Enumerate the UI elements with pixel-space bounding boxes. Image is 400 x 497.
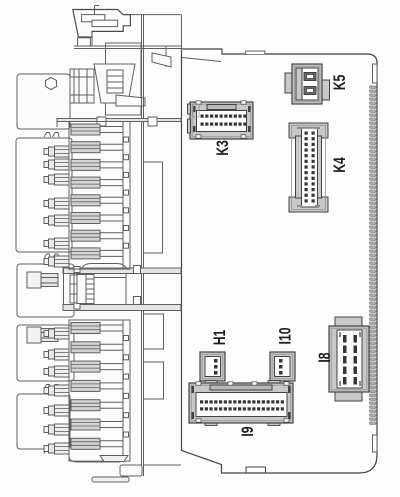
- mid band 1 latch b: [134, 266, 141, 274]
- plate 3: [17, 264, 74, 317]
- top tab inner vertical: [91, 31, 93, 46]
- inner vertical rail pair: [141, 14, 143, 476]
- top assembly crown: [94, 64, 135, 103]
- I10 cavity: [275, 357, 291, 377]
- plate 4: [17, 325, 74, 381]
- H1 cavity: [205, 357, 221, 377]
- K3 cavity: [197, 111, 247, 132]
- lower bank pins: [44, 331, 49, 337]
- connector K3: [188, 101, 254, 139]
- K5 cavity: [296, 68, 318, 100]
- top mounting tab outline: [123, 14, 181, 16]
- K4 cavity: [302, 128, 318, 207]
- top tab vertical tick: [94, 6, 96, 16]
- svg-text:I10: I10: [277, 327, 295, 344]
- K3 edge notches: [196, 101, 246, 138]
- K5 left tab: [285, 73, 293, 93]
- K4 pin number marks: [297, 127, 320, 207]
- connector K5: [285, 64, 330, 104]
- large terminal B: [27, 327, 41, 343]
- I9 corner marks: [192, 386, 291, 419]
- mid band 2 latch b: [134, 297, 141, 305]
- body left edge upper extension: [181, 15, 183, 52]
- svg-text:K4: K4: [331, 157, 349, 173]
- svg-text:H1: H1: [211, 330, 229, 346]
- plate 5: [17, 394, 70, 449]
- inner rail box 3: [144, 362, 164, 399]
- I8 pin slots: [343, 335, 357, 385]
- mid band 1 latch a: [74, 267, 80, 273]
- K4 top flange: [289, 123, 328, 138]
- connector K5 shell: [292, 64, 322, 104]
- connector I10 shell: [270, 352, 295, 381]
- tiny part number mark: [193, 104, 199, 117]
- mid right shelf: [94, 277, 126, 279]
- I9 edge notches: [196, 382, 289, 422]
- svg-text:K3: K3: [214, 140, 232, 156]
- upper bank shell: [69, 122, 130, 270]
- K4 body: [296, 136, 322, 198]
- mid ladder cage: [77, 275, 94, 304]
- bottom step rect: [120, 465, 142, 476]
- connector K4: [289, 123, 328, 212]
- bracket plate with hex hole: [17, 74, 70, 129]
- K3 corner marks: [193, 106, 251, 132]
- right edge slot bottom: [373, 435, 378, 452]
- neck rails: [74, 45, 181, 47]
- top assembly left stack: [70, 69, 94, 103]
- connector K3 shell: [190, 102, 253, 139]
- top tab slot 2: [92, 20, 118, 26]
- top-left inner diagonal: [182, 58, 221, 62]
- lower bank ribs: [71, 323, 100, 334]
- upper bank pins: [44, 149, 49, 155]
- neck wedge: [152, 53, 171, 67]
- mid band 2: [63, 305, 181, 311]
- K5 divider: [296, 68, 302, 100]
- mid band left end: [63, 268, 65, 311]
- svg-text:K5: K5: [331, 75, 349, 91]
- clip marks: [44, 133, 59, 138]
- K5 right tab: [321, 80, 330, 100]
- connector H1: [200, 352, 225, 381]
- K4 bottom flange: [289, 197, 328, 212]
- upper band left end: [56, 119, 58, 128]
- svg-text:I8: I8: [316, 352, 334, 362]
- upper bank ribs: [71, 124, 100, 135]
- top tab body: [73, 10, 131, 38]
- band latch square a: [97, 117, 106, 126]
- I9 top tabs: [205, 381, 217, 384]
- I9 cavity: [196, 393, 287, 417]
- module main body outline: [182, 49, 378, 473]
- connector I10: [270, 352, 295, 381]
- mid band 2 latch a: [74, 303, 80, 309]
- plate 2: [16, 138, 72, 252]
- I8 bottom tab: [335, 391, 362, 401]
- I8 pin number marks: [339, 332, 361, 386]
- mid dome: [82, 264, 126, 269]
- top assembly cage rungs: [107, 75, 123, 77]
- top piece foot: [78, 38, 91, 46]
- connector I8 shell: [329, 326, 369, 392]
- K4 pin grid: [305, 132, 315, 203]
- inner rail box 2: [144, 314, 164, 349]
- bottom link line: [144, 464, 182, 466]
- I8 cavity: [337, 330, 362, 388]
- inner rail box 1: [144, 162, 163, 253]
- I9 pin rows: [200, 400, 284, 410]
- top edge bump: [246, 51, 265, 54]
- connector H1 shell: [200, 352, 225, 381]
- neck vertical: [165, 46, 167, 67]
- I8 top tab: [335, 317, 362, 327]
- H1 pins: [214, 359, 218, 375]
- top tab slot 1: [82, 15, 105, 22]
- lower shell bottom taper: [100, 456, 128, 462]
- connector I8: [329, 317, 369, 401]
- mid left stack: [70, 275, 77, 303]
- svg-text:I9: I9: [239, 426, 257, 436]
- lower bank shell: [69, 320, 130, 461]
- bottom foot bar: [92, 477, 129, 482]
- mid band 1: [63, 268, 181, 274]
- connector I9: [189, 381, 293, 426]
- upper bank top band: [57, 119, 181, 122]
- I9 bottom tabs: [205, 423, 217, 426]
- serrated heatsink edge: [370, 86, 377, 424]
- crown lower wedge: [116, 95, 145, 106]
- band latch square b: [148, 117, 157, 126]
- connector I9 shell: [189, 383, 293, 423]
- K3 left tabs: [188, 104, 191, 114]
- K3 top bar: [207, 105, 236, 110]
- K5 pin 1: [304, 73, 316, 81]
- I9 top bar: [210, 385, 272, 390]
- bottom edge tab bump: [246, 467, 266, 473]
- K3 pin rows: [201, 115, 247, 126]
- top assembly inner cage: [107, 70, 123, 93]
- lower shell bottom curve: [69, 456, 120, 462]
- K5 pin 2: [304, 87, 316, 95]
- top pin assembly frame: [106, 43, 142, 115]
- right edge slot top: [373, 64, 378, 83]
- large terminal A: [27, 272, 41, 288]
- I10 pins: [279, 359, 283, 375]
- hex hole: [46, 78, 57, 90]
